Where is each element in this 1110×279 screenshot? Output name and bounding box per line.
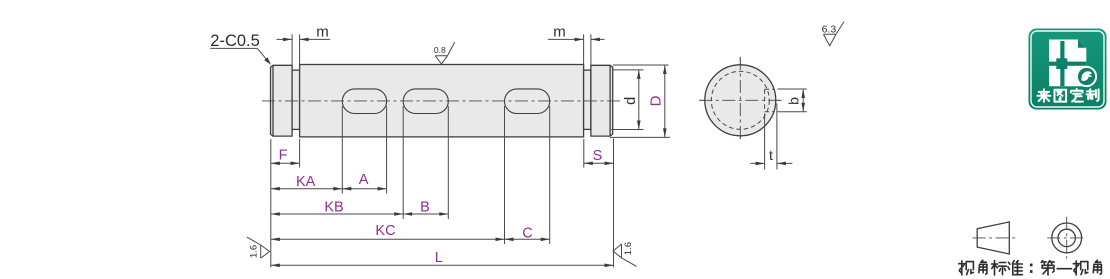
m dimension left arrows (277, 38, 331, 42)
right end extension line (613, 139, 615, 268)
green badge 来图定制 (1029, 29, 1107, 110)
S label (593, 148, 603, 164)
svg-text:F: F (279, 147, 288, 163)
KA dimension (271, 187, 343, 191)
KA label (296, 174, 316, 190)
keyway slot 3 (505, 89, 550, 114)
b dimension line (801, 89, 805, 112)
F right extension line (299, 139, 301, 168)
end view outer circle (705, 65, 776, 136)
t dimension extension lines (765, 104, 777, 170)
6.3 roughness value (822, 24, 837, 36)
left end extension line (270, 139, 272, 268)
right journal with chamfers (591, 65, 613, 136)
caption: 视角标准：第一视角 (959, 260, 1102, 275)
b dimension extension lines (778, 89, 807, 112)
A label (359, 172, 369, 188)
D dimension extension lines (610, 65, 670, 137)
keyway slot 1 (342, 89, 386, 114)
KB label (324, 200, 343, 216)
L label (435, 250, 443, 266)
svg-text:b: b (785, 97, 801, 105)
d dimension line (637, 70, 641, 130)
left retaining-ring groove (292, 70, 300, 129)
svg-text:m: m (316, 23, 329, 40)
left journal with chamfers (271, 65, 293, 136)
KC dimension (271, 238, 505, 242)
S left extension line (583, 139, 585, 168)
shaft main body (300, 65, 584, 137)
m dimension left extension lines (292, 34, 300, 70)
D label (648, 95, 665, 106)
svg-text:KB: KB (324, 200, 343, 216)
right retaining-ring groove (584, 70, 591, 129)
svg-text:0.8: 0.8 (434, 45, 446, 55)
slot3 extension lines (505, 106, 550, 244)
B label (420, 199, 430, 215)
0.8 roughness symbol (435, 42, 454, 64)
d label (623, 97, 639, 105)
2-C0.5 leader line (210, 48, 271, 64)
svg-text:L: L (435, 250, 443, 266)
F label (279, 147, 288, 163)
1.6 value left (248, 245, 259, 258)
keyway hidden profile (765, 89, 774, 111)
B dimension (403, 212, 448, 216)
slot2 extension lines (403, 106, 448, 219)
m label left (316, 23, 329, 40)
L dimension (271, 264, 614, 268)
svg-text:t: t (769, 147, 773, 163)
S dimension (584, 162, 614, 166)
2-C0.5 chamfer label (210, 32, 260, 50)
end view vertical centerline (739, 57, 741, 141)
svg-text:KA: KA (296, 174, 316, 190)
m dimension right extension lines (584, 34, 591, 70)
C label (522, 226, 532, 242)
badge text 来图定制 (1037, 89, 1050, 102)
t dimension arrows (750, 162, 792, 166)
b label (785, 97, 801, 105)
d dimension extension lines (611, 70, 643, 130)
1.6 roughness symbol right (613, 244, 637, 266)
KB dimension (271, 212, 403, 216)
C dimension (505, 238, 550, 242)
svg-text:1.6: 1.6 (248, 245, 259, 258)
end view crosshair overlay (699, 57, 782, 141)
svg-text:S: S (593, 148, 603, 164)
m label right (553, 23, 566, 40)
end view dashed circle (keyway bottom dia) (711, 71, 769, 129)
svg-text:A: A (359, 172, 369, 188)
projection symbol: circle end view (1047, 217, 1086, 259)
centerline of shaft (262, 100, 622, 102)
6.3 roughness symbol (823, 22, 844, 46)
svg-text:1.6: 1.6 (623, 242, 634, 255)
svg-text:d: d (623, 97, 639, 105)
m dimension right arrows (548, 38, 605, 42)
svg-text:2-C0.5: 2-C0.5 (210, 32, 260, 50)
t label (769, 147, 773, 163)
keyway slot 2 (403, 89, 448, 114)
0.8 roughness value (434, 45, 446, 55)
projection symbol: frustum side view (973, 222, 1017, 254)
D dimension line (663, 65, 667, 137)
svg-text:m: m (553, 23, 566, 40)
badge crosshair (1060, 41, 1064, 86)
svg-text:KC: KC (375, 223, 395, 239)
svg-text:D: D (648, 95, 665, 106)
1.6 value right (623, 242, 634, 255)
F dimension (271, 162, 300, 166)
svg-text:C: C (522, 226, 532, 242)
badge page icon (1049, 40, 1086, 87)
slot1 extension lines (342, 106, 386, 194)
1.6 roughness symbol left (247, 237, 270, 258)
KC label (375, 223, 395, 239)
badge stamp circle (1077, 67, 1096, 86)
A dimension (342, 187, 386, 191)
end view horizontal centerline (699, 99, 782, 101)
svg-text:B: B (420, 199, 430, 215)
